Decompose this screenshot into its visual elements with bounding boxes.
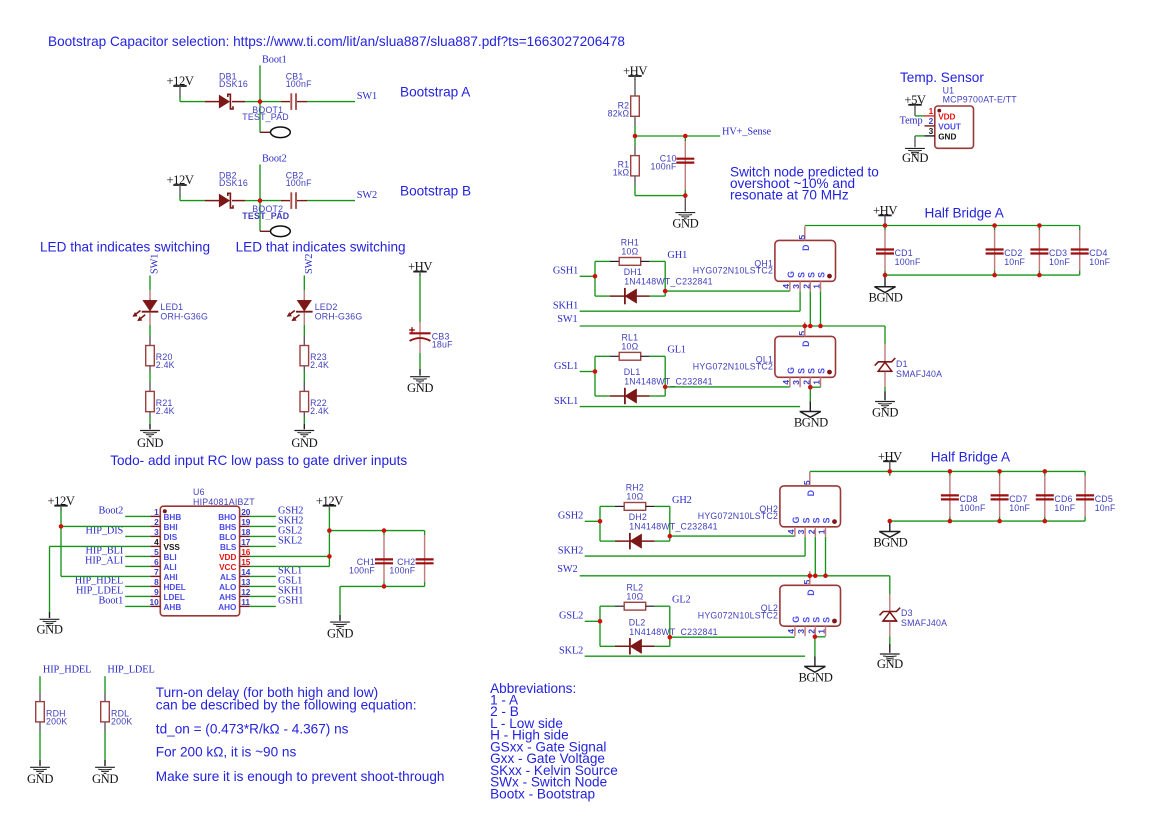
node Boot2 wire up (259, 164, 261, 200)
U6 pin 6 ALI (150, 565, 160, 567)
junction (948, 469, 953, 474)
QH1 pin 4 G (789, 281, 791, 291)
label SKL2 <- U6 pin 17 (250, 545, 276, 547)
capacitor CD4 10nF (1079, 226, 1081, 231)
label SKL1 <- U6 pin 14 (250, 575, 276, 577)
svg-text:DH2: DH2 (629, 512, 647, 522)
svg-text:2: 2 (801, 284, 811, 289)
diode DB2 DSK16 (205, 200, 219, 202)
U6 pin 9 LDEL (150, 595, 160, 597)
svg-text:4: 4 (786, 529, 796, 534)
svg-text:15: 15 (241, 557, 251, 567)
svg-text:GND: GND (902, 151, 928, 165)
U6 pin 4 VSS (150, 545, 160, 547)
resistor RH2 10R loop (599, 506, 601, 541)
junction (808, 324, 813, 329)
ground (410, 376, 430, 378)
svg-text:SMAFJ40A: SMAFJ40A (896, 369, 942, 379)
svg-text:ALO: ALO (219, 583, 237, 592)
transistor QH2 HYG072N10LSTC2 body (780, 486, 841, 527)
svg-text:TEST_PAD: TEST_PAD (242, 211, 289, 221)
QL1 pin 2 S (809, 377, 811, 387)
svg-text:S: S (796, 272, 806, 278)
svg-text:VDD: VDD (219, 553, 236, 562)
test pad BOOT1 (271, 127, 291, 138)
resistor R20 2.4K (146, 346, 155, 366)
QH1 pin 2 S (809, 281, 811, 291)
wire D1 to GND (884, 372, 886, 387)
svg-text:BHB: BHB (164, 513, 182, 522)
capacitor CD7 10nF (999, 471, 1001, 476)
label GSL1 <- U6 pin 13 (250, 585, 276, 587)
wire +12V to DB1 (179, 97, 181, 102)
label SKH1 <- U6 pin 12 (250, 595, 276, 597)
junction (327, 528, 332, 533)
svg-text:100nF: 100nF (895, 257, 921, 267)
svg-text:LED2: LED2 (315, 302, 338, 312)
junction (258, 198, 263, 203)
svg-text:2: 2 (929, 116, 934, 126)
U6 pin 3 DIS (150, 535, 160, 537)
junction (683, 134, 688, 139)
svg-text:DSK16: DSK16 (219, 178, 248, 188)
svg-text:td_on = (0.473*R/kΩ - 4.367) n: td_on = (0.473*R/kΩ - 4.367) ns (156, 721, 349, 736)
U6 pin 10 AHB (150, 605, 160, 607)
wire QH1 S(3) to SKH1 (799, 291, 801, 311)
wire VCC pin15 (250, 565, 330, 567)
wire SKH1 (580, 310, 800, 312)
svg-text:BHS: BHS (219, 523, 237, 532)
svg-text:1N4148WT_C232841: 1N4148WT_C232841 (629, 627, 718, 637)
diode DB1 DSK16 (205, 101, 219, 103)
svg-text:SW1: SW1 (557, 314, 577, 325)
svg-text:D: D (801, 341, 811, 347)
diode DL1 1N4148WT (595, 395, 610, 397)
wire right rail GH1 (664, 261, 666, 296)
wire SKH2 (585, 555, 805, 557)
svg-text:1N4148WT_C232841: 1N4148WT_C232841 (629, 522, 718, 532)
capacitor CH2 100nF (424, 531, 426, 535)
ground (140, 430, 160, 432)
junction (382, 584, 387, 589)
svg-text:DH1: DH1 (624, 267, 642, 277)
svg-text:Half Bridge A: Half Bridge A (931, 450, 1011, 465)
capacitor CD6 10nF (1044, 471, 1046, 476)
wire right rail GL2 (669, 606, 671, 646)
svg-text:AHS: AHS (219, 593, 237, 602)
label HIP_HDEL -> U6 pin 8 (125, 585, 150, 587)
wire cap rail top (329, 530, 424, 532)
junction (593, 369, 598, 374)
svg-text:3: 3 (791, 284, 801, 289)
label SKH2 <- U6 pin 19 (250, 525, 276, 527)
junction (1037, 223, 1042, 228)
wire R20 to R21 (149, 366, 151, 372)
svg-text:BGND: BGND (873, 536, 907, 550)
svg-text:5: 5 (154, 547, 159, 557)
resistor R1 1k (634, 136, 636, 146)
svg-text:Todo- add input RC low pass to: Todo- add input RC low pass to gate driv… (110, 453, 407, 468)
svg-text:17: 17 (241, 537, 251, 547)
op-amp U6 HIP4081AIBZT body (160, 506, 239, 616)
wire +5V to U1 VDD (914, 108, 916, 116)
svg-text:LED that indicates switching: LED that indicates switching (236, 240, 406, 255)
svg-text:4: 4 (781, 284, 791, 289)
svg-text:Temp: Temp (900, 115, 923, 126)
svg-text:SW1: SW1 (150, 254, 161, 274)
junction (668, 534, 673, 539)
wire gate to MOSFET (665, 290, 790, 292)
wire LED to R23 (303, 312, 305, 325)
svg-text:SMAFJ40A: SMAFJ40A (901, 618, 947, 628)
label GSL2 <- U6 pin 18 (250, 535, 276, 537)
test pad BOOT2 (271, 226, 291, 237)
svg-text:SW1: SW1 (357, 91, 377, 102)
svg-text:10nF: 10nF (1009, 503, 1030, 513)
svg-text:10Ω: 10Ω (621, 247, 638, 257)
wire HIP_HDEL to RDH (39, 676, 41, 692)
junction (818, 324, 823, 329)
svg-text:ALS: ALS (220, 573, 237, 582)
svg-text:10: 10 (149, 597, 159, 607)
capacitor CD2 10nF (994, 226, 996, 231)
junction (598, 519, 603, 524)
wire CB2 to SW2 (307, 200, 355, 202)
wire SW1 down to D1 (884, 326, 886, 344)
svg-text:3: 3 (929, 126, 934, 136)
svg-text:1: 1 (929, 106, 934, 116)
wire QL1 S(2)(1) join (810, 386, 820, 388)
wire RDL to GND (104, 722, 106, 732)
wire gate to MOSFET (665, 386, 790, 388)
wire QH1 S(2)(1) to SW1 (809, 291, 811, 326)
svg-text:11: 11 (241, 597, 250, 607)
svg-text:GND: GND (872, 405, 898, 419)
wire +HV to rail (884, 224, 886, 226)
QL1 pin 3 S (799, 377, 801, 387)
svg-text:S: S (817, 368, 827, 374)
label GSH2 <- U6 pin 20 (250, 515, 276, 517)
svg-text:Bootx - Bootstrap: Bootx - Bootstrap (490, 786, 595, 801)
junction (997, 469, 1002, 474)
U6 pin 16 VDD (240, 555, 250, 557)
svg-text:SW2: SW2 (357, 190, 377, 201)
svg-text:Boot2: Boot2 (99, 505, 124, 516)
svg-text:GH1: GH1 (667, 250, 687, 261)
svg-text:AHO: AHO (218, 603, 237, 612)
svg-text:DL1: DL1 (624, 367, 641, 377)
svg-text:SW2: SW2 (557, 564, 577, 575)
svg-text:100nF: 100nF (286, 79, 312, 89)
svg-text:D1: D1 (896, 359, 908, 369)
wire QL2 to BGND (814, 637, 816, 657)
svg-text:18: 18 (241, 527, 251, 537)
wire +HV to R2 (634, 79, 636, 96)
svg-text:4: 4 (786, 629, 796, 634)
junction (808, 574, 813, 579)
wire SW2 to QL2 drain (809, 576, 811, 586)
svg-text:HIP4081AIBZT: HIP4081AIBZT (193, 497, 255, 507)
U1 pin 1 VDD (925, 115, 935, 117)
resistor RDH 200K (36, 702, 45, 722)
ground BGND (bridge A caps) (875, 287, 896, 293)
svg-text:DSK16: DSK16 (219, 79, 248, 89)
junction (888, 519, 893, 524)
resistor RL2 10R loop (599, 606, 601, 646)
transistor QL2 HYG072N10LSTC2 body (780, 585, 841, 626)
wire LED to R20 (149, 312, 151, 325)
svg-text:LDEL: LDEL (164, 593, 185, 602)
wire SKL2 (585, 655, 805, 657)
wire QL2 S(2)(1) join (815, 636, 826, 638)
svg-text:1N4148WT_C232841: 1N4148WT_C232841 (624, 277, 713, 287)
svg-text:GND: GND (27, 772, 53, 786)
wire DB to junction (245, 200, 260, 202)
LED LED1 ORH-G36G (149, 298, 151, 311)
U6 pin 12 AHS (240, 595, 250, 597)
wire CB3 to GND (419, 353, 421, 369)
junction (663, 289, 668, 294)
svg-text:3: 3 (796, 629, 806, 634)
svg-text:1: 1 (817, 629, 827, 634)
svg-text:Boot1: Boot1 (262, 55, 287, 66)
junction (1043, 519, 1048, 524)
junction (59, 524, 64, 529)
QH1 pin 5 D (804, 226, 806, 240)
junction (997, 519, 1002, 524)
svg-text:4: 4 (154, 537, 159, 547)
wire VDD pin16 (250, 555, 330, 557)
svg-text:GSH2: GSH2 (558, 511, 583, 522)
junction (883, 273, 888, 278)
svg-text:GND: GND (938, 133, 956, 142)
resistor R23 2.4K (300, 346, 309, 366)
ground BGND (bridge B caps) (879, 532, 900, 538)
wire QH2 S(3) to SKH2 (804, 537, 806, 556)
QH2 pin 5 D (809, 472, 811, 486)
U1 pin 3 GND (915, 135, 925, 137)
wire VSS to GND (50, 545, 151, 547)
svg-text:HDEL: HDEL (164, 583, 186, 592)
wire D3 to GND (889, 622, 891, 637)
svg-text:S: S (817, 272, 827, 278)
svg-text:S: S (807, 272, 817, 278)
svg-text:S: S (822, 517, 832, 523)
junction (948, 519, 953, 524)
resistor RL1 10R loop (594, 356, 596, 396)
svg-text:2.4K: 2.4K (310, 406, 329, 416)
svg-text:G: G (786, 271, 796, 278)
svg-text:HYG072N10LSTC2: HYG072N10LSTC2 (698, 511, 778, 521)
junction (808, 385, 813, 390)
wire QH1 drain to +HV rail (805, 225, 1080, 227)
U1 pin 2 VOUT (925, 125, 935, 127)
svg-text:Bootstrap A: Bootstrap A (400, 85, 471, 100)
wire from label to LED (149, 276, 151, 291)
U6 pin 7 AHI (150, 575, 160, 577)
svg-text:S: S (822, 617, 832, 623)
junction (992, 223, 997, 228)
svg-text:GND: GND (877, 657, 903, 671)
svg-text:10Ω: 10Ω (621, 342, 638, 352)
label HIP_LDEL -> U6 pin 9 (125, 595, 150, 597)
wire to BGND B rail (889, 521, 891, 531)
wire to GND (caps) (339, 586, 341, 615)
U6 pin 14 ALS (240, 575, 250, 577)
svg-text:200K: 200K (111, 716, 132, 726)
U6 pin 5 BLI (150, 555, 160, 557)
svg-text:VDD: VDD (938, 113, 955, 122)
capacitor CD3 10nF (1038, 226, 1040, 231)
svg-text:SW2: SW2 (304, 254, 315, 274)
svg-text:S: S (807, 368, 817, 374)
svg-text:GND: GND (92, 772, 118, 786)
QL2 pin 3 S (804, 626, 806, 636)
svg-text:3: 3 (796, 529, 806, 534)
svg-text:Bootstrap Capacitor selection:: Bootstrap Capacitor selection: https://w… (48, 34, 625, 49)
wire to test pad BOOT2 (259, 201, 261, 232)
junction (683, 193, 688, 198)
svg-text:ORH-G36G: ORH-G36G (315, 311, 363, 321)
capacitor CB3 18uF polarized (409, 332, 430, 334)
svg-text:HIP_HDEL: HIP_HDEL (43, 665, 91, 676)
ground (U6 caps) (330, 621, 350, 623)
junction (593, 274, 598, 279)
resistor RDL 200K (101, 702, 110, 722)
junction (803, 324, 808, 329)
label Boot1 -> U6 pin 10 (125, 605, 150, 607)
svg-text:BHO: BHO (218, 513, 237, 522)
svg-text:GND: GND (672, 216, 698, 230)
svg-text:U6: U6 (193, 487, 205, 497)
junction (813, 574, 818, 579)
svg-text:10nF: 10nF (1049, 257, 1070, 267)
svg-text:SKL2: SKL2 (559, 646, 583, 657)
wire to test pad BOOT1 (259, 102, 261, 133)
svg-text:BLI: BLI (164, 553, 177, 562)
svg-text:3: 3 (791, 380, 801, 385)
svg-text:BLO: BLO (219, 533, 237, 542)
label GSH1 <- U6 pin 11 (250, 605, 276, 607)
svg-text:10nF: 10nF (1089, 257, 1110, 267)
svg-text:D: D (801, 245, 811, 251)
svg-text:1N4148WT_C232841: 1N4148WT_C232841 (624, 377, 713, 387)
svg-text:GND: GND (37, 623, 63, 637)
svg-text:GND: GND (327, 626, 353, 640)
junction (883, 223, 888, 228)
wire cap rail bottom (340, 585, 425, 587)
svg-text:S: S (796, 368, 806, 374)
svg-text:1kΩ: 1kΩ (613, 168, 630, 178)
junction (382, 528, 387, 533)
ground (D3) (880, 653, 900, 655)
svg-text:LED1: LED1 (160, 302, 183, 312)
wire bottom rail B (890, 520, 1085, 522)
transistor QH1 HYG072N10LSTC2 body (775, 240, 836, 281)
svg-text:10nF: 10nF (1054, 503, 1075, 513)
svg-text:2.4K: 2.4K (310, 360, 329, 370)
U6 pin 15 VCC (240, 565, 250, 567)
wire QH2 S(2)(1) to SW2 (814, 537, 816, 576)
svg-text:ALI: ALI (164, 563, 177, 572)
ground BGND (QL2) (804, 666, 825, 672)
wire R2 to node (634, 116, 636, 126)
ground BGND (QL1) (800, 412, 821, 418)
wire SW2 down to D3 (889, 576, 891, 594)
svg-text:SKH1: SKH1 (553, 301, 578, 312)
svg-text:200K: 200K (46, 716, 67, 726)
QL1 pin 5 D (804, 322, 806, 336)
QH2 pin 1 S (825, 527, 827, 537)
U6 pin 17 BLS (240, 545, 250, 547)
svg-text:100nF: 100nF (286, 178, 312, 188)
svg-text:1: 1 (812, 380, 822, 385)
diode DH2 1N4148WT (600, 540, 615, 542)
svg-text:ORH-G36G: ORH-G36G (160, 311, 208, 321)
svg-text:GND: GND (407, 381, 433, 395)
svg-text:Make sure it is enough to prev: Make sure it is enough to prevent shoot-… (156, 769, 445, 784)
svg-text:GSH1: GSH1 (278, 595, 303, 606)
wire SW1 (580, 325, 885, 327)
QH2 pin 2 S (814, 527, 816, 537)
wire R23 to R22 (303, 366, 305, 372)
junction (258, 99, 263, 104)
wire gate to MOSFET (670, 636, 795, 638)
svg-text:2.4K: 2.4K (156, 360, 175, 370)
svg-text:S: S (812, 517, 822, 523)
svg-text:Temp. Sensor: Temp. Sensor (900, 70, 984, 85)
U6 pin1 marker (163, 509, 167, 513)
ground (RDH) (30, 766, 50, 768)
diode DL2 1N4148WT (600, 645, 615, 647)
capacitor CH1 100nF (383, 531, 385, 535)
svg-text:BGND: BGND (794, 416, 828, 430)
svg-text:MCP9700AT-E/TT: MCP9700AT-E/TT (943, 95, 1018, 105)
QL2 pin 2 S (814, 626, 816, 636)
resistor RH1 10R loop (594, 261, 596, 296)
svg-text:10nF: 10nF (1004, 257, 1025, 267)
ground (D1) (875, 401, 895, 403)
svg-text:BGND: BGND (869, 291, 903, 305)
svg-text:BGND: BGND (798, 670, 832, 684)
QH1 pin 1 S (820, 281, 822, 291)
svg-text:100nF: 100nF (349, 565, 375, 575)
svg-text:VCC: VCC (219, 563, 236, 572)
svg-text:SKL1: SKL1 (554, 396, 578, 407)
junction (1043, 469, 1048, 474)
wire right rail GH2 (669, 506, 671, 541)
svg-text:HIP_LDEL: HIP_LDEL (107, 665, 154, 676)
junction (888, 469, 893, 474)
junction (663, 385, 668, 390)
label HIP_ALI -> U6 pin 6 (125, 565, 150, 567)
node Boot1 wire up (259, 65, 261, 101)
wire +HV to rail B (889, 470, 891, 476)
svg-text:G: G (791, 516, 801, 523)
svg-text:SKL2: SKL2 (278, 535, 302, 546)
ground (divider) (675, 212, 695, 214)
U6 pin 8 HDEL (150, 585, 160, 587)
QL2 pin 5 D (809, 571, 811, 585)
wire bottom node (635, 195, 685, 197)
svg-text:DL2: DL2 (629, 617, 646, 627)
QH2 pin 4 G (794, 527, 796, 537)
svg-text:5: 5 (802, 480, 812, 485)
label HIP_BLI -> U6 pin 5 (125, 555, 150, 557)
resistor R22 2.4K (300, 391, 309, 411)
svg-text:D3: D3 (901, 608, 913, 618)
svg-text:16: 16 (241, 547, 251, 557)
